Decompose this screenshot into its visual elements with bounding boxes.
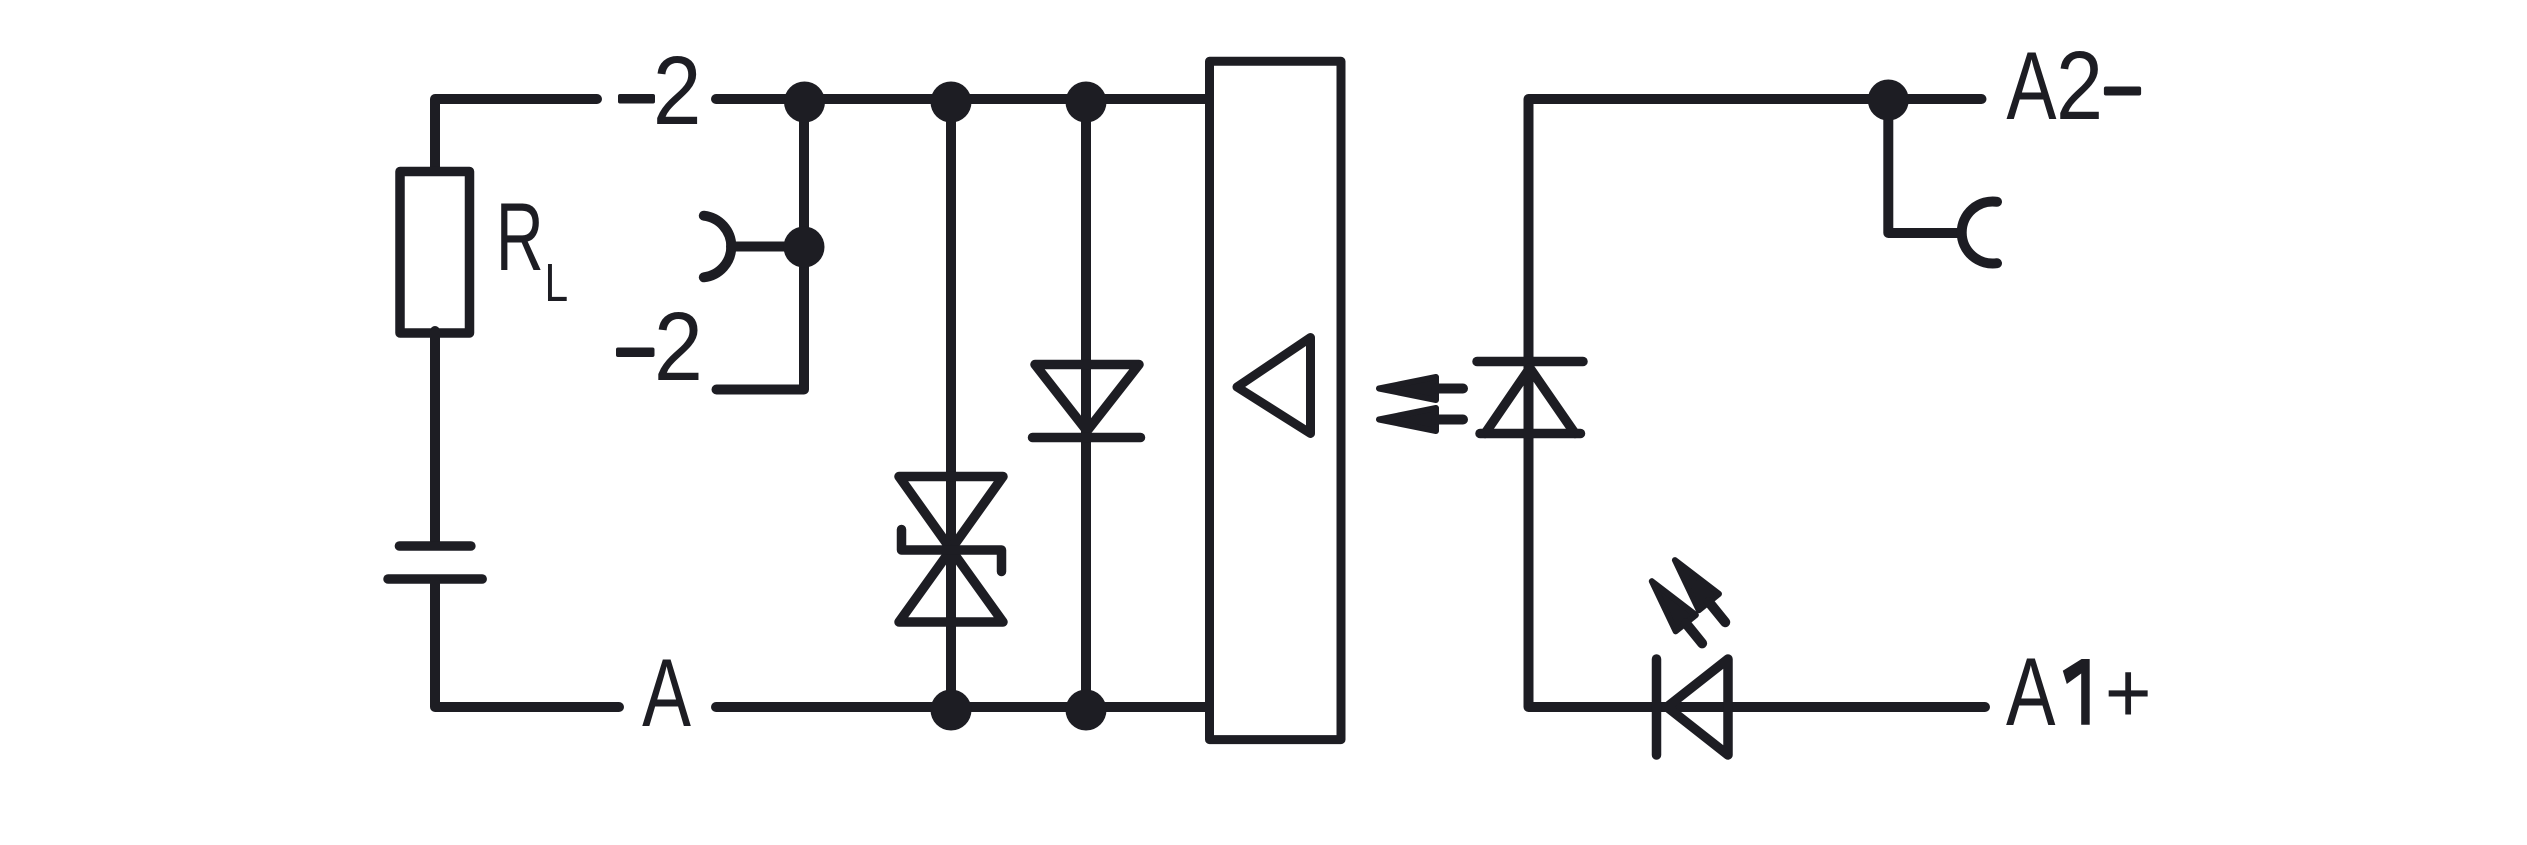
junction dot top rail 2 (931, 82, 972, 123)
terminal label -2 (top) minus (618, 94, 655, 104)
svg-text:A: A (642, 639, 691, 747)
svg-text:L: L (545, 253, 569, 313)
battery G1 bottom plate (388, 574, 482, 584)
wire A2- rail and emitter branch and A1+ rail (1529, 99, 1986, 707)
photodiode emitter D3 triangle (1485, 368, 1575, 434)
wire battery to terminal A (435, 581, 619, 707)
svg-text:2: 2 (654, 292, 703, 401)
junction dot clamp (784, 227, 825, 268)
wire from terminal -2 left to resistor RL (435, 99, 597, 169)
junction dot bottom rail 2 (1066, 690, 1107, 731)
clamp contact (right, at A2-) (1962, 202, 1997, 264)
wire clamp to junction (731, 242, 795, 252)
status LED triangle (1667, 659, 1728, 755)
wire resistor RL to battery (430, 331, 440, 544)
svg-text:2: 2 (653, 36, 702, 145)
optocoupler output box U1 (1210, 61, 1342, 739)
terminal label A1+ digit 1 (2063, 659, 2090, 725)
light arrow into receiver 2 (1379, 408, 1463, 431)
wire A2- junction to clamp (1888, 99, 1958, 233)
LED light arrow 1 (1642, 573, 1713, 652)
optocoupler receiver triangle (1237, 338, 1311, 434)
wire terminal -2 to optocoupler box (top rail) (716, 94, 1209, 104)
junction dot A2- (1868, 80, 1909, 121)
terminal label A2- minus (2104, 87, 2141, 96)
svg-text:R: R (496, 182, 544, 291)
junction dot top rail 3 (1066, 82, 1107, 123)
wire diode column (1081, 99, 1091, 707)
TVS suppressor diode D1 upper triangle (899, 477, 1003, 550)
LED light arrow 2 (1665, 552, 1736, 631)
TVS suppressor diode D1 bar with hooks (902, 530, 1002, 572)
battery G1 top plate (399, 541, 471, 551)
status LED cathode bar (1652, 659, 1662, 755)
svg-text:+: + (2105, 643, 2152, 741)
TVS suppressor diode D1 lower triangle (899, 550, 1003, 623)
freewheeling diode D2 triangle (1035, 365, 1139, 432)
svg-text:2: 2 (2056, 32, 2103, 140)
wire TVS column (946, 99, 956, 707)
photodiode emitter D3 cathode bar (1477, 357, 1583, 367)
junction dot bottom rail 1 (931, 690, 972, 731)
photodiode emitter D3 base line (1480, 429, 1581, 439)
clamp contact (left, at -2 jumper) (704, 216, 731, 278)
wire junction column to clamp corner (717, 99, 805, 390)
junction dot top rail 1 (784, 82, 825, 123)
terminal label -2 (mid) minus (616, 348, 655, 358)
resistor RL (400, 172, 470, 334)
svg-text:A: A (2006, 32, 2056, 140)
wire node A to optocoupler box (bottom rail) (716, 702, 1209, 712)
light arrow into receiver 1 (1379, 377, 1463, 400)
svg-text:A: A (2006, 638, 2056, 746)
freewheeling diode D2 cathode bar (1033, 433, 1141, 443)
